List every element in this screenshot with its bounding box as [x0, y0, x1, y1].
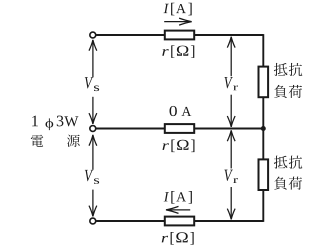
Vs lower span arrow (up) — [92, 135, 94, 170]
current arrow I bottom (leftward) — [166, 209, 190, 211]
label dengen (power source) — [31, 135, 43, 147]
resistor r bottom line — [165, 217, 194, 226]
terminal middle (source neutral) — [90, 126, 96, 132]
resistor r middle line — [165, 124, 194, 133]
Vs upper span arrow (down) — [92, 97, 94, 124]
Vr upper span arrow (up) — [230, 37, 232, 76]
label 1-phase 3-wire source — [32, 116, 38, 127]
terminal bottom (source) — [90, 218, 96, 224]
Vs upper span arrow (up) — [92, 40, 94, 77]
label Vs upper — [85, 77, 93, 88]
label 0 A middle — [169, 106, 176, 116]
wire bottom horizontal — [96, 220, 263, 222]
wire right vertical — [262, 34, 264, 222]
label resistive load upper — [274, 63, 287, 76]
label Vr lower — [224, 170, 232, 181]
resistor r top line — [165, 31, 194, 40]
current arrow I top (rightward) — [164, 21, 191, 23]
wire top horizontal — [96, 34, 263, 36]
load resistor lower (vertical box) — [259, 159, 269, 190]
Vr lower span arrow (down) — [230, 187, 232, 219]
label I[A] top — [164, 4, 169, 13]
Vr upper span arrow (down) — [230, 95, 232, 127]
terminal top (source) — [90, 32, 96, 38]
label I[A] bottom — [164, 192, 169, 201]
Vr lower span arrow (up) — [230, 130, 232, 168]
label resistive load lower — [274, 156, 287, 169]
junction node dot — [261, 126, 266, 131]
label r[ohm] bottom — [162, 236, 168, 243]
wire middle horizontal — [96, 128, 261, 130]
load resistor upper (vertical box) — [259, 67, 269, 98]
label Vs lower — [85, 170, 93, 181]
label Vr upper — [224, 77, 232, 88]
label r[ohm] top — [162, 49, 168, 56]
label r[ohm] middle — [162, 143, 168, 150]
Vs lower span arrow (down) — [92, 190, 94, 217]
